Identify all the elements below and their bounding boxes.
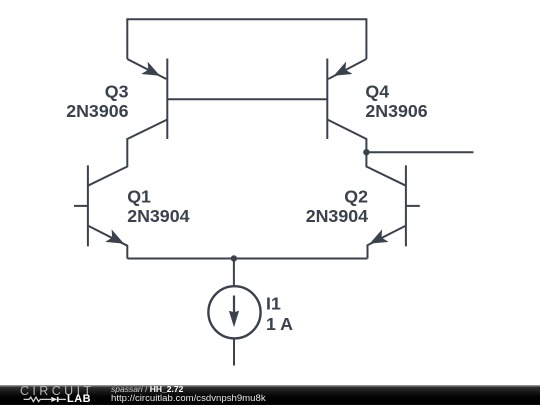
svg-text:1 A: 1 A	[266, 314, 293, 334]
svg-text:I1: I1	[266, 294, 281, 314]
svg-text:2N3906: 2N3906	[66, 101, 128, 121]
svg-text:Q2: Q2	[344, 186, 368, 206]
svg-text:2N3904: 2N3904	[127, 206, 189, 226]
svg-text:Q4: Q4	[365, 81, 389, 101]
svg-text:2N3906: 2N3906	[365, 101, 427, 121]
svg-text:Q3: Q3	[105, 81, 129, 101]
svg-text:Q1: Q1	[127, 186, 151, 206]
svg-text:2N3904: 2N3904	[306, 206, 368, 226]
